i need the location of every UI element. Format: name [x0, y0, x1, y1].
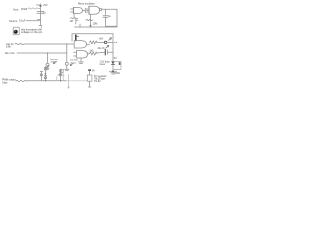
svg-text:78L05 type: 78L05 type [94, 78, 106, 81]
svg-text:TO-92: TO-92 [94, 81, 101, 83]
svg-text:5V regulator: 5V regulator [94, 75, 107, 78]
svg-text:low batt: low batt [70, 59, 78, 62]
svg-text:Source: Source [9, 19, 18, 23]
svg-text:2N22: 2N22 [21, 7, 28, 11]
svg-text:detect: detect [70, 61, 76, 64]
svg-text:0.1uF: 0.1uF [19, 18, 26, 22]
svg-text:+5V: +5V [99, 36, 104, 40]
svg-text:1k2: 1k2 [90, 49, 95, 52]
svg-text:1u: 1u [43, 10, 47, 14]
svg-text:9V: 9V [92, 70, 95, 72]
svg-text:GND: GND [115, 72, 121, 75]
svg-text:out: out [114, 41, 117, 44]
svg-text:Vout: Vout [13, 7, 18, 11]
svg-text:Gate: Gate [2, 82, 8, 85]
svg-text:1.5V drop: 1.5V drop [100, 61, 111, 64]
svg-text:10M: 10M [93, 23, 98, 26]
svg-text:+5V: +5V [43, 3, 48, 7]
svg-text:Micro oscillator: Micro oscillator [78, 3, 95, 6]
svg-text:voltage on the pin: voltage on the pin [21, 30, 43, 34]
svg-text:zener: zener [100, 63, 106, 66]
svg-text:1M: 1M [70, 20, 73, 23]
svg-text:5V: 5V [114, 58, 117, 60]
svg-text:22u 16: 22u 16 [98, 48, 106, 50]
svg-text:6.8k: 6.8k [6, 46, 11, 49]
